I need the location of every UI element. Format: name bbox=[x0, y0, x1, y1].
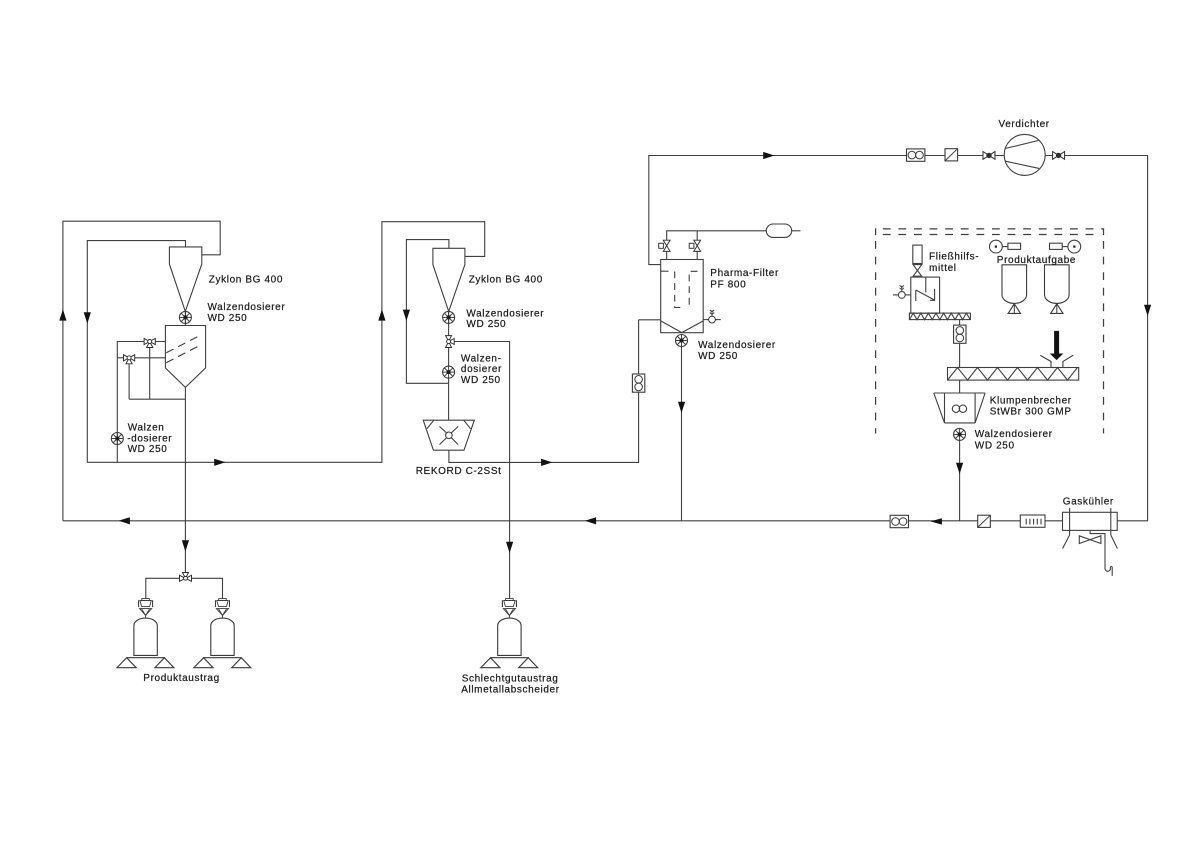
hoist left bbox=[990, 240, 1021, 253]
svg-text:WD 250: WD 250 bbox=[698, 351, 738, 362]
wire classifier outlet down to diverter bbox=[184, 387, 186, 572]
arrow down to produktaustrag bbox=[182, 540, 189, 551]
gaskuehler bbox=[1063, 508, 1118, 576]
wire classifier valve A piping bbox=[117, 342, 165, 463]
wire classifier fines header bbox=[129, 398, 185, 400]
svg-text:Pharma-Filter: Pharma-Filter bbox=[710, 268, 779, 279]
horizontal flowmeter compressor line bbox=[907, 149, 925, 161]
square filter compressor line bbox=[945, 149, 958, 161]
filter bags dashed bbox=[675, 271, 698, 307]
svg-text:WD 250: WD 250 bbox=[461, 375, 501, 386]
filter top valve 2 bbox=[689, 240, 700, 251]
wire compressor out right riser down bbox=[1065, 156, 1148, 521]
vertical flowmeter filter feed bbox=[632, 374, 644, 392]
svg-text:WD 250: WD 250 bbox=[208, 313, 248, 324]
hoist right bbox=[1050, 240, 1081, 253]
svg-text:StWBr 300 GMP: StWBr 300 GMP bbox=[990, 406, 1072, 417]
compressor verdichter bbox=[1004, 134, 1045, 175]
rotary valve WD250 cyclone1 bbox=[179, 311, 191, 323]
conveyor 1 zigzag bbox=[909, 313, 970, 320]
arrow down on x=87.3 bbox=[84, 312, 91, 323]
arrow down to schlechtgut bbox=[506, 542, 513, 553]
wire cyclone1 valve stub bbox=[184, 311, 186, 325]
svg-text:Produktaustrag: Produktaustrag bbox=[143, 673, 220, 684]
svg-text:WD 250: WD 250 bbox=[128, 444, 168, 455]
produktaufgabe bag left bbox=[1002, 265, 1027, 314]
svg-text:Produktaufgabe: Produktaufgabe bbox=[997, 255, 1076, 266]
arrow right on conveying line 1 bbox=[214, 459, 225, 466]
container schlechtgut bbox=[481, 599, 538, 668]
wire cyclone2 branch to schlechtgut bbox=[454, 342, 509, 599]
svg-text:Zyklon BG 400: Zyklon BG 400 bbox=[209, 275, 283, 286]
svg-text:Fließhilfs-: Fließhilfs- bbox=[929, 252, 979, 263]
3way valve A bbox=[144, 338, 155, 347]
funnel wings on conveyor2 bbox=[1040, 355, 1073, 367]
svg-text:dosierer: dosierer bbox=[461, 364, 502, 375]
pulse air capsule bbox=[766, 224, 791, 237]
wire diverter branches bbox=[146, 578, 180, 598]
svg-text:Zyklon BG 400: Zyklon BG 400 bbox=[469, 275, 543, 286]
vertical flowmeter dosing bbox=[954, 325, 966, 343]
wire filter feed riser upper bbox=[638, 320, 640, 374]
arrow down on filter outlet bbox=[678, 402, 685, 413]
wire filter outlet down to return bbox=[681, 347, 683, 521]
wire mill outlet to filter riser bbox=[449, 392, 639, 462]
svg-text:Walzen: Walzen bbox=[128, 422, 165, 433]
conveyor 2 zigzag bbox=[948, 368, 1079, 381]
arrow up on riser x=381.9 bbox=[378, 309, 385, 320]
wire conveyor1 to fmv2 bbox=[959, 320, 961, 325]
arrow left on return line east bbox=[930, 518, 942, 524]
relief valve filter right bbox=[703, 319, 708, 321]
arrow down on klumpenbrecher outlet bbox=[956, 463, 963, 474]
heater hatched bbox=[1020, 515, 1045, 527]
wire compressor line segments bbox=[925, 155, 945, 157]
wire classifier valve B piping bbox=[117, 357, 165, 359]
black feed arrow bbox=[1050, 331, 1064, 360]
arrow left on return line left end bbox=[119, 517, 130, 524]
svg-text:Walzendosierer: Walzendosierer bbox=[466, 308, 544, 319]
svg-text:Walzendosierer: Walzendosierer bbox=[975, 429, 1053, 440]
svg-text:-dosierer: -dosierer bbox=[127, 433, 172, 444]
svg-text:WD 250: WD 250 bbox=[466, 319, 506, 330]
wire return line gaskuehler to left bbox=[1045, 520, 1063, 522]
wire filter gas out to compressor bbox=[649, 156, 907, 265]
dashed enclosure top line 1 bbox=[883, 228, 1104, 230]
svg-text:Walzen-: Walzen- bbox=[461, 353, 502, 364]
wire conveyor2 to klumpenbrecher bbox=[959, 380, 961, 393]
svg-text:mittel: mittel bbox=[929, 263, 957, 274]
wire left riser x=62.9 bbox=[63, 221, 220, 521]
arrow up on x=62.9 bbox=[59, 309, 66, 320]
square filter return line bbox=[978, 515, 991, 527]
rotary valve walzen-dosierer WD250 bbox=[111, 433, 123, 445]
produktaufgabe bag right bbox=[1045, 265, 1070, 314]
container right bbox=[194, 599, 251, 668]
horizontal flowmeter return line bbox=[890, 515, 908, 527]
svg-text:PF 800: PF 800 bbox=[710, 279, 746, 290]
svg-text:WD 250: WD 250 bbox=[975, 440, 1015, 451]
3way valve cyclone2 (vertical bowtie + right branch) bbox=[446, 336, 455, 348]
wire pharma filter pulse header bbox=[667, 231, 767, 241]
rotary valve walzendosierer2 WD250 bbox=[443, 366, 455, 378]
wire fmv2 to conveyor2 bbox=[959, 343, 961, 367]
arrow down on right riser bbox=[1144, 305, 1151, 316]
svg-text:REKORD C-2SSt: REKORD C-2SSt bbox=[416, 466, 502, 477]
rotary valve WD250 filter bbox=[676, 335, 688, 347]
arrow right on compressor line bbox=[763, 152, 774, 159]
classifier screen dashed lines bbox=[166, 336, 200, 363]
dashed enclosure corner left bbox=[875, 228, 877, 235]
wire cyclone1 gas out to downcomer bbox=[87, 222, 484, 463]
rotary valve WD250 cyclone2 bbox=[443, 311, 455, 323]
svg-text:Walzendosierer: Walzendosierer bbox=[698, 340, 776, 351]
svg-text:Verdichter: Verdichter bbox=[999, 119, 1050, 130]
filter top valve 1 bbox=[659, 240, 670, 251]
wire cyclone2 main vertical bbox=[448, 311, 450, 335]
wire klumpenbrecher outlet to return bbox=[959, 440, 961, 521]
arrow down on x=406.4 bbox=[403, 310, 410, 321]
svg-text:Walzendosierer: Walzendosierer bbox=[208, 302, 286, 313]
svg-text:Allmetallabscheider: Allmetallabscheider bbox=[461, 685, 560, 696]
arrow left on return line near gasksquare bbox=[585, 517, 596, 524]
svg-text:Gaskühler: Gaskühler bbox=[1063, 497, 1114, 508]
rotary valve WD250 klumpenbrecher bbox=[954, 428, 966, 440]
dashed enclosure corner right bbox=[1103, 228, 1105, 235]
dashed enclosure right border bbox=[1103, 241, 1105, 434]
dashed enclosure left border bbox=[875, 241, 877, 434]
dashed enclosure top line 2 bbox=[883, 234, 1096, 236]
arrow right on conveying line 2 bbox=[541, 459, 552, 466]
3way diverter valve bbox=[180, 573, 192, 582]
svg-text:Klumpenbrecher: Klumpenbrecher bbox=[990, 396, 1072, 407]
wire filter feed horizontal bbox=[639, 319, 661, 321]
container left bbox=[117, 599, 174, 668]
3way valve B bbox=[124, 355, 135, 364]
wire cyclone2 gas out bbox=[406, 240, 449, 384]
ball valve 1 bbox=[983, 152, 995, 160]
svg-text:Schlechtgutaustrag: Schlechtgutaustrag bbox=[462, 674, 559, 685]
ball valve 2 bbox=[1053, 152, 1065, 160]
